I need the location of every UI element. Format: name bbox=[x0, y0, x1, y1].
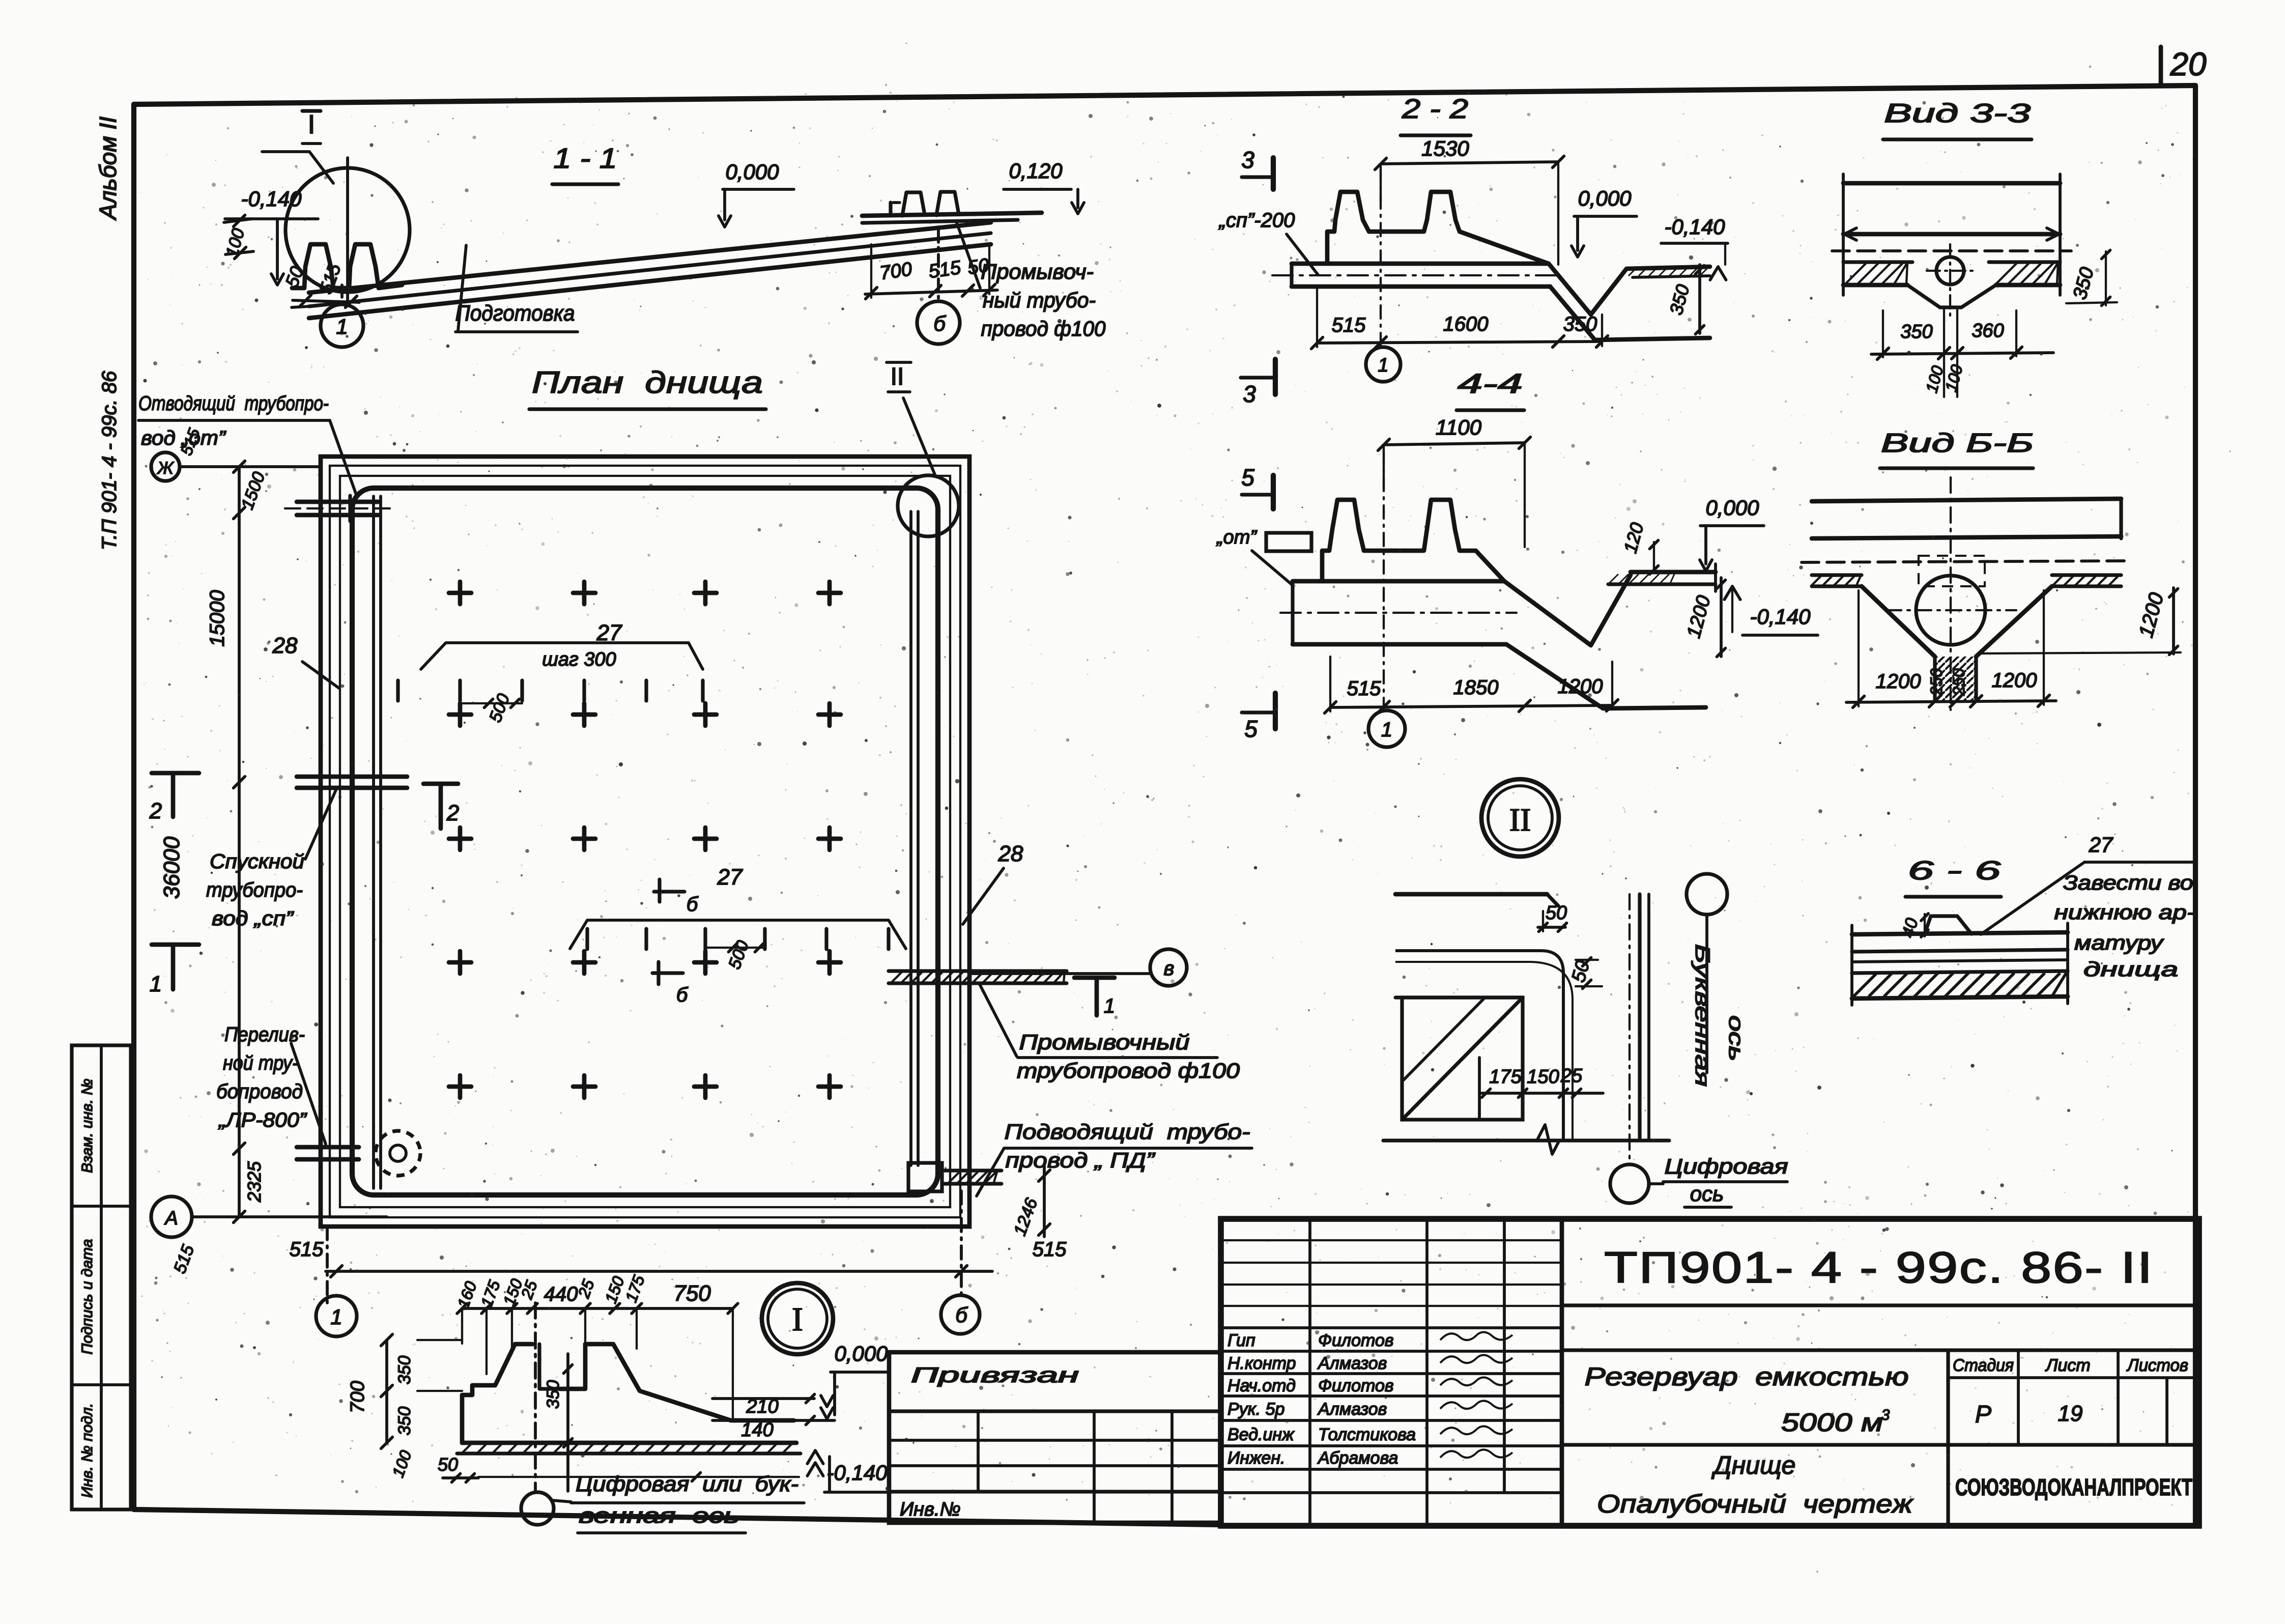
svg-text:„от”: „от” bbox=[1216, 527, 1258, 548]
svg-text:360: 360 bbox=[1972, 320, 2004, 341]
section mark 3 bottom bbox=[1241, 359, 1275, 407]
svg-text:515: 515 bbox=[290, 1238, 324, 1261]
sheet right border bbox=[2193, 86, 2198, 1523]
section 6-6 slab bbox=[1852, 916, 2068, 1005]
svg-text:3: 3 bbox=[1241, 147, 1254, 173]
svg-text:1: 1 bbox=[330, 1305, 342, 1329]
svg-text:-0,140: -0,140 bbox=[1664, 215, 1725, 239]
axis circle 1 (1-1) bbox=[321, 304, 363, 347]
view 3-3 right dim 350 bbox=[2066, 250, 2117, 306]
section 6-6 title bbox=[1905, 856, 2001, 897]
pipe ОТ (top left) bbox=[285, 496, 394, 521]
detail I left dims bbox=[347, 1334, 462, 1480]
svg-text:1: 1 bbox=[1378, 355, 1388, 376]
detail I axis line bbox=[534, 1303, 537, 1491]
svg-text:провод ф100: провод ф100 bbox=[981, 317, 1106, 340]
svg-text:Вид 3-3: Вид 3-3 bbox=[1884, 99, 2031, 128]
svg-text:Промывоч-: Промывоч- bbox=[981, 260, 1094, 283]
bracket 27 шаг 300 bbox=[398, 620, 703, 725]
svg-text:1100: 1100 bbox=[1436, 415, 1482, 439]
svg-text:Стадия: Стадия bbox=[1953, 1356, 2014, 1375]
axis line to circle 1 bbox=[340, 285, 344, 304]
svg-text:Перелив-: Перелив- bbox=[224, 1023, 305, 1046]
svg-text:1: 1 bbox=[1104, 995, 1115, 1017]
svg-text:150: 150 bbox=[1527, 1066, 1559, 1088]
label Завести во нижнюю арматуру bbox=[2054, 872, 2195, 981]
detail II dim 50 top bbox=[1538, 902, 1567, 931]
level -0,140 (4-4) bbox=[1724, 586, 1818, 635]
svg-text:175: 175 bbox=[1489, 1066, 1522, 1088]
svg-text:ной тру-: ной тру- bbox=[223, 1052, 298, 1074]
plan wall line 3 bbox=[340, 476, 950, 1207]
svg-text:350: 350 bbox=[1900, 321, 1932, 343]
svg-text:провод „ ПД”: провод „ ПД” bbox=[1006, 1148, 1156, 1172]
svg-text:0,120: 0,120 bbox=[1009, 159, 1063, 183]
detail I dims 210 140 bbox=[712, 1394, 835, 1441]
svg-text:0,000: 0,000 bbox=[1578, 186, 1632, 210]
detail I label circle bbox=[762, 1283, 833, 1354]
svg-text:Взам. инв. №: Взам. инв. № bbox=[79, 1078, 96, 1173]
section mark 1 right bbox=[1074, 978, 1115, 1017]
svg-text:0,000: 0,000 bbox=[834, 1342, 888, 1365]
svg-text:Гип: Гип bbox=[1227, 1331, 1255, 1350]
svg-text:ТП901- 4 - 99с. 86- II: ТП901- 4 - 99с. 86- II bbox=[1604, 1243, 2154, 1292]
view 3-3 slab bbox=[1832, 174, 2071, 321]
svg-text:36000: 36000 bbox=[159, 836, 184, 899]
svg-text:2: 2 bbox=[149, 799, 162, 823]
svg-text:нижнюю ар-: нижнюю ар- bbox=[2054, 901, 2195, 924]
svg-text:25: 25 bbox=[1560, 1065, 1583, 1087]
svg-text:50: 50 bbox=[438, 1454, 458, 1475]
svg-text:515: 515 bbox=[927, 257, 962, 283]
svg-text:Вед.инж: Вед.инж bbox=[1227, 1425, 1295, 1444]
section mark 1 left bbox=[150, 945, 199, 996]
pipe ЛР-800 (bottom left) bbox=[297, 1131, 420, 1176]
svg-text:Толстикова: Толстикова bbox=[1318, 1425, 1416, 1444]
svg-text:Ж: Ж bbox=[156, 459, 174, 478]
section 2-2 slab bbox=[1272, 264, 1710, 340]
bracket 27 (lower) bbox=[570, 865, 906, 972]
svg-text:1200: 1200 bbox=[1876, 670, 1921, 693]
label Промывочный трубопровод ф100 bbox=[957, 223, 1106, 340]
svg-text:б: б bbox=[933, 311, 946, 335]
svg-text:Листов: Листов bbox=[2126, 1356, 2188, 1375]
svg-text:II: II bbox=[891, 363, 904, 390]
detail I extension lines bbox=[462, 1308, 733, 1419]
svg-text:венная ось: венная ось bbox=[579, 1503, 739, 1527]
margin label Альбом II bbox=[95, 117, 121, 221]
svg-text:трубопро-: трубопро- bbox=[206, 879, 303, 901]
svg-text:Инв. № подл.: Инв. № подл. bbox=[79, 1403, 96, 1498]
svg-text:Опалубочный чертеж: Опалубочный чертеж bbox=[1597, 1490, 1914, 1518]
svg-text:Промывочный: Промывочный bbox=[1019, 1030, 1190, 1054]
detail II corner walls bbox=[1383, 894, 1669, 1154]
view Б-Б dims bbox=[1846, 590, 2056, 707]
page number 20 bbox=[2169, 46, 2207, 82]
dim 100 left bbox=[222, 215, 253, 260]
section 4-4 slab bbox=[1280, 564, 1716, 708]
detail I profile bbox=[457, 1344, 801, 1454]
view Б-Б right dim 1200 bbox=[1982, 588, 2181, 654]
section 4-4 title bbox=[1456, 368, 1524, 410]
page number tick bbox=[2159, 47, 2163, 86]
label Подготовка bbox=[455, 245, 578, 332]
svg-text:Инжен.: Инжен. bbox=[1227, 1448, 1286, 1468]
title block code bbox=[1604, 1243, 2154, 1292]
svg-text:Цифровая или бук-: Цифровая или бук- bbox=[576, 1472, 798, 1496]
axis А bbox=[151, 1196, 387, 1276]
svg-text:Филотов: Филотов bbox=[1318, 1376, 1394, 1395]
axis circle б (plan) bbox=[941, 1295, 980, 1334]
svg-text:б: б bbox=[687, 893, 699, 916]
svg-text:750: 750 bbox=[673, 1281, 711, 1306]
label 28 right bbox=[963, 841, 1023, 924]
title block attach box bbox=[889, 1352, 1221, 1523]
view Б-Б title bbox=[1880, 429, 2034, 468]
axis Цифровая ось bbox=[1610, 894, 1788, 1207]
svg-text:Филотов: Филотов bbox=[1318, 1331, 1394, 1350]
dims 50 515 (left) bbox=[281, 261, 359, 308]
svg-text:515: 515 bbox=[1033, 1238, 1067, 1261]
svg-text:в: в bbox=[1164, 957, 1175, 980]
label Промывочный ф100 bbox=[979, 983, 1240, 1082]
sheet left border bbox=[131, 104, 136, 1509]
axis circle 1 (4-4) bbox=[1368, 450, 1405, 747]
label Переливной ЛР-800 bbox=[216, 1023, 326, 1144]
svg-text:трубопровод ф100: трубопровод ф100 bbox=[1017, 1059, 1240, 1082]
svg-text:-0,140: -0,140 bbox=[826, 1461, 888, 1485]
detail I callout circle bbox=[285, 168, 410, 292]
svg-text:Отводящий трубопро-: Отводящий трубопро- bbox=[138, 392, 329, 415]
level 0,120 bbox=[1004, 159, 1084, 214]
section mark 3 top bbox=[1241, 147, 1273, 189]
svg-text:ось: ось bbox=[1725, 1015, 1747, 1061]
plan wall line 2 bbox=[330, 466, 960, 1217]
section 2-2 curb profile bbox=[1327, 192, 1549, 264]
detail I axis label bbox=[571, 1472, 804, 1533]
section 2-2 bottom dims bbox=[1311, 289, 1608, 349]
svg-text:План днища: План днища bbox=[532, 365, 763, 400]
plan title План днища bbox=[529, 365, 766, 409]
view 3-3 dims bbox=[1871, 307, 2053, 397]
detail I level 0,000 bbox=[821, 1342, 890, 1419]
dim 350 right (2-2) bbox=[1665, 265, 1704, 334]
svg-text:вод „сп”: вод „сп” bbox=[212, 907, 294, 930]
level 0,000 (4-4) bbox=[1700, 496, 1764, 571]
detail II label circle bbox=[1481, 779, 1559, 857]
dim 1530 bbox=[1375, 136, 1564, 265]
svg-text:19: 19 bbox=[2058, 1401, 2083, 1426]
margin label ТП 901-4-99с.86 bbox=[98, 371, 121, 550]
svg-text:б: б bbox=[676, 984, 689, 1006]
svg-text:5: 5 bbox=[1241, 464, 1254, 491]
svg-text:Т.П 901- 4 - 99с. 86: Т.П 901- 4 - 99с. 86 bbox=[98, 371, 121, 550]
svg-text:Лист: Лист bbox=[2045, 1356, 2091, 1375]
svg-text:1 - 1: 1 - 1 bbox=[554, 142, 617, 174]
section 1-1 title bbox=[552, 142, 618, 184]
svg-text:27: 27 bbox=[596, 620, 622, 645]
svg-text:А: А bbox=[164, 1208, 178, 1229]
dim 40 (6-6) bbox=[1898, 914, 1928, 939]
svg-text:250: 250 bbox=[1927, 668, 1946, 696]
svg-text:27: 27 bbox=[717, 865, 743, 890]
svg-text:28: 28 bbox=[272, 633, 298, 658]
svg-text:700: 700 bbox=[347, 1381, 368, 1413]
level -0,140 (2-2) bbox=[1661, 215, 1728, 280]
title block stage values bbox=[1975, 1378, 2167, 1445]
svg-text:140: 140 bbox=[741, 1419, 773, 1441]
svg-text:515: 515 bbox=[1347, 677, 1381, 700]
section 4-4 curb profile bbox=[1322, 500, 1504, 581]
title block object bbox=[1585, 1362, 1909, 1437]
svg-text:20: 20 bbox=[2169, 46, 2207, 82]
dims 700 515 50 (right) bbox=[865, 244, 997, 299]
section mark 5 bottom bbox=[1242, 693, 1275, 742]
view 3-3 title bbox=[1883, 99, 2032, 139]
svg-text:1: 1 bbox=[1381, 719, 1392, 741]
dim 1100 bbox=[1378, 415, 1531, 547]
svg-text:1: 1 bbox=[150, 972, 162, 996]
plan outer wall bbox=[321, 457, 969, 1227]
rebar crosses grid bbox=[449, 582, 841, 1098]
svg-text:250: 250 bbox=[1950, 668, 1968, 696]
svg-text:Вид Б-Б: Вид Б-Б bbox=[1881, 429, 2034, 458]
svg-text:Днище: Днище bbox=[1711, 1451, 1796, 1479]
plan corner detail circle bbox=[898, 475, 959, 536]
svg-text:Алмазов: Алмазов bbox=[1317, 1400, 1387, 1419]
svg-text:I: I bbox=[792, 1301, 803, 1338]
svg-text:350: 350 bbox=[1563, 313, 1597, 335]
detail I top dim line bbox=[454, 1273, 738, 1314]
pipe СП (left) bbox=[297, 777, 407, 788]
curb right 1-1 bbox=[862, 192, 1042, 223]
title block sheet name bbox=[1597, 1451, 1914, 1518]
svg-text:ный трубо-: ный трубо- bbox=[983, 288, 1096, 312]
level 0,000 (2-2) bbox=[1572, 186, 1637, 257]
svg-text:1200: 1200 bbox=[1558, 675, 1603, 698]
svg-text:1600: 1600 bbox=[1443, 313, 1489, 335]
svg-text:515: 515 bbox=[1332, 314, 1366, 336]
detail II dims 175 150 25 bbox=[1479, 1065, 1603, 1097]
left stamp strip bbox=[72, 1045, 131, 1509]
svg-text:Подготовка: Подготовка bbox=[455, 301, 575, 326]
svg-text:Подводящий трубо-: Подводящий трубо- bbox=[1005, 1120, 1250, 1144]
svg-text:210: 210 bbox=[746, 1396, 778, 1417]
axis circle 1 (plan) bbox=[316, 1296, 357, 1336]
title block stage headers bbox=[1953, 1356, 2188, 1375]
label Подводящий ПД bbox=[977, 1120, 1252, 1196]
svg-text:5: 5 bbox=[1244, 716, 1258, 742]
label 28 left bbox=[272, 633, 339, 688]
svg-text:700: 700 bbox=[878, 259, 913, 284]
axis Буквенная ось bbox=[1687, 874, 1747, 1087]
svg-text:I: I bbox=[308, 110, 315, 139]
plan bottom dim 515 right bbox=[1033, 1238, 1067, 1261]
axis в bbox=[969, 949, 1187, 986]
level 0,000 (1-1) bbox=[719, 160, 794, 227]
svg-text:Спускной: Спускной bbox=[210, 850, 304, 873]
svg-text:Буквенная: Буквенная bbox=[1691, 944, 1713, 1087]
detail I mark leader bbox=[262, 110, 333, 183]
pipe ПД (bottom right) bbox=[908, 1163, 1050, 1238]
section 4-4 bottom dims bbox=[1325, 657, 1618, 713]
svg-text:3: 3 bbox=[1243, 381, 1256, 407]
svg-text:днища: днища bbox=[2083, 958, 2178, 981]
svg-text:5000 м: 5000 м bbox=[1781, 1408, 1883, 1437]
svg-text:2: 2 bbox=[446, 801, 459, 825]
svg-text:бопровод: бопровод bbox=[216, 1080, 303, 1103]
svg-text:6 - 6: 6 - 6 bbox=[1908, 856, 2001, 886]
axis line to circle б bbox=[937, 230, 940, 301]
svg-text:ось: ось bbox=[1690, 1182, 1724, 1206]
sheet bottom border bbox=[134, 1509, 1221, 1525]
vertical dim chain bbox=[159, 461, 269, 1223]
svg-text:-0,140: -0,140 bbox=[1750, 605, 1811, 629]
svg-text:II: II bbox=[1509, 802, 1531, 838]
svg-text:Завести во: Завести во bbox=[2063, 872, 2193, 894]
detail II dim 50 vert bbox=[1568, 958, 1602, 989]
dim 120 (4-4) bbox=[1619, 520, 1658, 574]
svg-text:350: 350 bbox=[544, 1380, 563, 1409]
pipe Промывочный (right) bbox=[889, 971, 1067, 983]
title block org bbox=[1955, 1474, 2192, 1500]
detail II mark bbox=[887, 362, 935, 476]
section mark б lower bbox=[652, 962, 689, 1006]
dim 1200 right (4-4) bbox=[1683, 578, 1725, 657]
svg-text:„ЛР-800”: „ЛР-800” bbox=[218, 1109, 307, 1131]
plan bottom dim line bbox=[326, 1191, 992, 1303]
svg-text:1850: 1850 bbox=[1453, 676, 1499, 699]
plan left channel bbox=[374, 496, 381, 1188]
svg-text:шаг 300: шаг 300 bbox=[542, 649, 616, 670]
svg-text:Р: Р bbox=[1975, 1401, 1991, 1428]
section mark 2 inner bbox=[423, 784, 459, 829]
label 27 (6-6) bbox=[1981, 833, 2195, 934]
svg-text:Инв.№: Инв.№ bbox=[900, 1499, 961, 1520]
svg-text:28: 28 bbox=[998, 841, 1023, 866]
label Спускной трубопровод сп bbox=[206, 788, 337, 930]
slab lines 1-1 bbox=[292, 222, 991, 318]
label от bbox=[1216, 527, 1311, 585]
svg-text:2325: 2325 bbox=[244, 1161, 265, 1203]
svg-text:б: б bbox=[955, 1303, 968, 1327]
title block names bbox=[1227, 1331, 1512, 1468]
plan bottom dim 515 left bbox=[285, 1238, 336, 1271]
label Отводящий трубопровод от bbox=[138, 392, 356, 495]
axis Ж bbox=[151, 426, 321, 481]
section mark б upper bbox=[654, 879, 699, 916]
section 2-2 title bbox=[1401, 94, 1471, 135]
svg-text:0,000: 0,000 bbox=[725, 160, 779, 184]
svg-text:1200: 1200 bbox=[1992, 669, 2037, 692]
plan right channel bbox=[911, 511, 918, 1165]
detail I small circle bbox=[521, 1492, 571, 1525]
section mark 2 left bbox=[149, 773, 199, 823]
svg-text:3: 3 bbox=[1881, 1407, 1890, 1423]
plan inner rounded wall bbox=[352, 488, 938, 1195]
sheet top border bbox=[134, 86, 2195, 104]
svg-text:Рук. 5р: Рук. 5р bbox=[1227, 1400, 1284, 1419]
axis circle 1 (2-2) bbox=[1366, 168, 1401, 382]
svg-text:27: 27 bbox=[2089, 833, 2113, 857]
svg-text:15000: 15000 bbox=[206, 590, 228, 646]
svg-text:50: 50 bbox=[1546, 902, 1567, 924]
level -0,140 bbox=[225, 187, 318, 285]
svg-text:СОЮЗВОДОКАНАЛПРОЕКТ: СОЮЗВОДОКАНАЛПРОЕКТ bbox=[1955, 1474, 2192, 1500]
title block grid bbox=[1221, 1219, 2199, 1526]
detail I dim 350 mid bbox=[544, 1354, 572, 1491]
svg-text:Абрамова: Абрамова bbox=[1317, 1448, 1398, 1468]
svg-text:2 - 2: 2 - 2 bbox=[1402, 94, 1468, 124]
axis circle б (1-1) bbox=[917, 301, 960, 344]
svg-text:Цифровая: Цифровая bbox=[1665, 1154, 1788, 1178]
svg-text:Резервуар емкостью: Резервуар емкостью bbox=[1585, 1362, 1909, 1391]
detail I level -0,140 bbox=[807, 1450, 890, 1492]
svg-text:„сп”-200: „сп”-200 bbox=[1218, 209, 1295, 232]
svg-text:Альбом II: Альбом II bbox=[95, 117, 121, 221]
svg-text:350: 350 bbox=[395, 1407, 414, 1436]
svg-text:Подпись и дата: Подпись и дата bbox=[79, 1239, 96, 1355]
label сп-200 bbox=[1218, 209, 1318, 275]
view Б-Б slab bbox=[1802, 477, 2130, 710]
svg-text:440: 440 bbox=[544, 1283, 578, 1305]
svg-text:-0,140: -0,140 bbox=[241, 187, 302, 211]
section mark 5 top bbox=[1241, 464, 1273, 509]
detail I dim 50 bbox=[438, 1454, 799, 1482]
svg-text:Н.контр: Н.контр bbox=[1227, 1354, 1296, 1373]
svg-text:350: 350 bbox=[395, 1356, 414, 1385]
svg-text:Нач.отд: Нач.отд bbox=[1227, 1376, 1296, 1395]
detail I circle contents bbox=[292, 158, 402, 305]
svg-text:Привязан: Привязан bbox=[911, 1363, 1079, 1387]
svg-text:0,000: 0,000 bbox=[1705, 496, 1759, 520]
